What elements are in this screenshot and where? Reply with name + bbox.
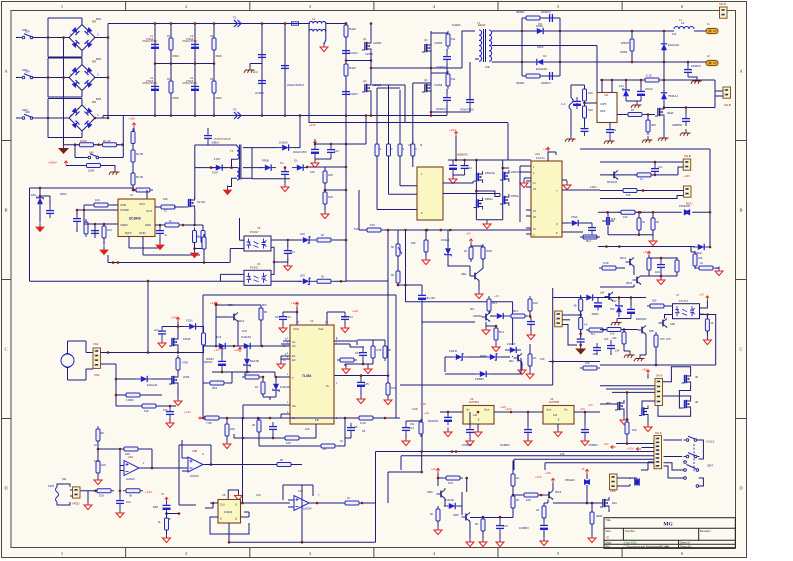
svg-text:BR3: BR3 (96, 97, 102, 101)
svg-text:LM324: LM324 (126, 477, 135, 481)
svg-text:2N60: 2N60 (183, 375, 190, 379)
svg-text:2aP: 2aP (600, 292, 605, 295)
svg-text:U10: U10 (535, 152, 540, 156)
svg-text:R11: R11 (538, 22, 543, 26)
svg-text:2K: 2K (516, 498, 520, 502)
svg-text:Vref: Vref (318, 327, 324, 331)
svg-text:C3: C3 (190, 34, 194, 38)
svg-text:4K: 4K (695, 400, 699, 404)
svg-text:U7: U7 (676, 293, 680, 297)
svg-text:750A: 750A (571, 215, 578, 219)
svg-text:680K: 680K (173, 96, 180, 100)
svg-text:SN-B: SN-B (719, 2, 726, 6)
svg-text:2200KV: 2200KV (541, 81, 551, 85)
svg-text:C: C (4, 347, 7, 352)
svg-text:1N4148: 1N4148 (241, 335, 251, 339)
svg-text:103: 103 (503, 524, 508, 528)
svg-text:8K: 8K (388, 348, 392, 352)
svg-text:750KAJ: 750KAJ (668, 94, 678, 98)
svg-text:L2: L2 (312, 17, 316, 21)
svg-text:56.0K: 56.0K (136, 175, 143, 179)
svg-text:10K: 10K (540, 357, 545, 361)
svg-text:R2: R2 (167, 77, 171, 81)
svg-text:104B0V: 104B0V (500, 443, 510, 447)
svg-text:U5: U5 (257, 226, 261, 230)
svg-text:+12V: +12V (352, 309, 358, 313)
svg-text:1K: 1K (321, 275, 325, 279)
svg-text:LM324: LM324 (303, 507, 312, 511)
svg-text:H8D: H8D (427, 490, 433, 494)
svg-text:10K: 10K (328, 173, 333, 177)
svg-text:+24V: +24V (171, 316, 178, 320)
svg-text:5K: 5K (475, 522, 479, 526)
svg-text:104B0V: 104B0V (462, 443, 472, 447)
svg-text:CN2: CN2 (94, 373, 100, 377)
svg-text:P6KE400: P6KE400 (679, 204, 691, 208)
svg-text:16K: 16K (286, 441, 291, 445)
svg-text:VCC: VCC (293, 327, 300, 331)
svg-text:560: 560 (610, 307, 615, 311)
svg-text:P6KE40: P6KE40 (565, 478, 575, 482)
svg-text:562: 562 (700, 312, 705, 316)
svg-text:Q: Q (235, 504, 237, 507)
svg-text:10K: 10K (533, 301, 538, 305)
svg-text:100uF/25V: 100uF/25V (293, 150, 307, 154)
svg-text:+24V: +24V (309, 123, 316, 127)
svg-text:+24: +24 (431, 467, 436, 471)
svg-text:Number: Number (625, 529, 635, 533)
svg-text:D2: D2 (543, 54, 547, 58)
svg-text:T: T (292, 376, 294, 380)
svg-text:560: 560 (652, 299, 657, 303)
svg-text:C21: C21 (286, 315, 291, 319)
svg-text:1: 1 (61, 4, 63, 9)
svg-text:2N4KV: 2N4KV (349, 92, 358, 96)
svg-text:+16: +16 (424, 411, 429, 415)
svg-text:File:: File: (606, 545, 611, 549)
svg-text:TL494: TL494 (302, 374, 311, 378)
svg-text:1BRO0a: 1BRO0a (485, 171, 496, 175)
svg-text:VREF: VREF (120, 223, 128, 227)
svg-text:2K: 2K (247, 370, 251, 374)
svg-text:+1V: +1V (494, 294, 499, 298)
svg-text:FR107: FR107 (507, 342, 516, 346)
svg-text:+12V: +12V (535, 475, 542, 479)
svg-text:A: A (202, 452, 204, 456)
svg-text:1K: 1K (533, 356, 537, 360)
svg-text:K1764: K1764 (197, 200, 206, 204)
svg-text:H8D50: H8D50 (473, 314, 482, 318)
svg-text:5K: 5K (280, 458, 284, 462)
svg-text:FR4aB: FR4aB (441, 238, 449, 242)
svg-text:F12N: F12N (186, 319, 192, 323)
svg-text:51K: 51K (632, 428, 637, 432)
svg-text:SW: SW (89, 151, 94, 155)
svg-text:10K: 10K (585, 361, 590, 365)
svg-text:1N: 1N (280, 161, 283, 165)
svg-text:1N4148: 1N4148 (280, 385, 290, 389)
svg-text:5.1K: 5.1K (646, 74, 652, 78)
svg-text:680K: 680K (216, 96, 223, 100)
svg-text:SW3: SW3 (22, 108, 28, 112)
svg-text:5K: 5K (391, 245, 394, 249)
svg-text:1K5: 1K5 (666, 337, 671, 341)
svg-text:9014: 9014 (228, 303, 234, 307)
svg-text:1K: 1K (321, 233, 325, 237)
svg-text:1N&AD: 1N&AD (279, 141, 288, 145)
svg-text:10K: 10K (94, 459, 99, 463)
svg-text:2L: 2L (158, 520, 162, 524)
svg-text:470K: 470K (182, 361, 188, 365)
svg-text:105: 105 (364, 382, 369, 386)
svg-text:LM: LM (473, 413, 478, 417)
svg-text:510: 510 (610, 332, 615, 336)
svg-text:1K: 1K (255, 385, 259, 389)
svg-text:+310: +310 (129, 116, 136, 120)
svg-text:Sheet of: Sheet of (680, 541, 690, 545)
svg-text:FR0B: FR0B (262, 159, 269, 163)
svg-text:10K: 10K (588, 91, 593, 95)
svg-text:U2: U2 (310, 319, 314, 323)
svg-text:SW1: SW1 (22, 28, 28, 32)
svg-text:B: B (4, 208, 7, 213)
svg-text:220uF/450V3: 220uF/450V3 (287, 83, 304, 87)
svg-text:SW2: SW2 (22, 68, 28, 72)
svg-text:666B70K: 666B70K (457, 153, 468, 157)
svg-text:ENGA40: ENGA40 (536, 67, 547, 71)
svg-text:U6: U6 (257, 262, 261, 266)
svg-text:C2656: C2656 (373, 41, 382, 45)
svg-text:2K: 2K (430, 512, 434, 516)
svg-text:C2656: C2656 (434, 41, 443, 45)
svg-text:CN2: CN2 (93, 342, 99, 346)
svg-text:104B0V: 104B0V (519, 526, 529, 530)
svg-text:4-Jan-2021: 4-Jan-2021 (624, 541, 638, 545)
svg-text:104: 104 (334, 149, 339, 153)
svg-text:10K: 10K (310, 170, 315, 174)
svg-text:MCR100: MCR100 (607, 180, 618, 184)
svg-text:5.6K: 5.6K (603, 261, 609, 265)
svg-text:104: 104 (275, 315, 280, 319)
svg-text:B4D6WV: B4D6WV (636, 317, 647, 321)
svg-text:2N1KV: 2N1KV (349, 51, 358, 55)
svg-text:+12V: +12V (291, 301, 298, 305)
svg-text:9014: 9014 (626, 281, 633, 285)
svg-text:Vin: Vin (466, 408, 470, 412)
svg-text:104: 104 (348, 315, 353, 319)
svg-text:51K: 51K (391, 386, 396, 390)
svg-text:MG: MG (663, 522, 673, 528)
svg-text:20: 20 (536, 508, 540, 512)
svg-text:R4: R4 (210, 77, 214, 81)
svg-text:C: C (739, 347, 742, 352)
svg-text:10n: 10n (658, 165, 663, 169)
svg-text:2G5KV: 2G5KV (255, 91, 264, 95)
svg-text:ENGA40: ENGA40 (147, 383, 158, 387)
svg-text:Q4: Q4 (424, 78, 428, 82)
svg-text:1K: 1K (631, 108, 635, 112)
svg-text:4.5K: 4.5K (412, 407, 418, 411)
svg-text:3900D: 3900D (516, 10, 524, 14)
svg-text:470B0V: 470B0V (588, 443, 598, 447)
svg-text:+16V: +16V (420, 402, 426, 406)
svg-text:26K: 26K (411, 241, 416, 245)
svg-text:2R2: 2R2 (212, 386, 218, 390)
svg-text:46K: 46K (698, 256, 703, 260)
svg-text:5K1: 5K1 (499, 330, 504, 334)
svg-text:sch: sch (665, 545, 670, 549)
svg-text:0V: 0V (161, 492, 165, 496)
svg-text:80B: 80B (649, 329, 654, 333)
svg-text:1N4: 1N4 (242, 329, 247, 333)
svg-text:1N&D0: 1N&D0 (452, 23, 461, 27)
svg-text:OUT: OUT (146, 209, 153, 213)
svg-text:20a: 20a (612, 501, 617, 505)
svg-text:5K: 5K (129, 494, 133, 498)
svg-text:1K: 1K (516, 476, 520, 480)
svg-text:680K: 680K (216, 54, 223, 58)
svg-text:6 10 21: 6 10 21 (536, 156, 545, 160)
svg-text:1R20: 1R20 (80, 139, 87, 143)
svg-text:680K: 680K (173, 54, 180, 58)
svg-text:Vout: Vout (484, 408, 489, 412)
svg-text:SN-B: SN-B (724, 103, 731, 107)
svg-text:5NaP: 5NaP (349, 66, 356, 70)
svg-text:+340V: +340V (48, 161, 57, 165)
svg-text:D: D (220, 518, 222, 521)
svg-text:1B: 1B (362, 429, 365, 433)
svg-text:R1-20: R1-20 (103, 139, 111, 143)
svg-text:1K: 1K (101, 431, 105, 435)
svg-text:2K: 2K (464, 249, 467, 253)
svg-text:1K: 1K (323, 447, 327, 451)
svg-text:1K: 1K (700, 261, 703, 265)
svg-text:CN5: CN5 (610, 489, 616, 493)
svg-text:+5V: +5V (604, 442, 609, 446)
svg-text:B4A4B: B4A4B (250, 359, 259, 363)
svg-text:GND: GND (139, 231, 147, 235)
svg-text:10K: 10K (101, 463, 106, 467)
svg-text:104: 104 (672, 32, 677, 36)
svg-text:Title: Title (606, 518, 612, 522)
svg-text:240: 240 (612, 336, 617, 340)
svg-text:2K: 2K (252, 423, 256, 427)
svg-text:1K: 1K (347, 496, 351, 500)
svg-text:U9A: U9A (128, 455, 133, 459)
svg-text:5.2K: 5.2K (360, 421, 366, 425)
svg-text:+5V: +5V (588, 403, 593, 407)
svg-text:UC3843: UC3843 (129, 217, 141, 221)
svg-text:9013: 9013 (555, 490, 562, 494)
svg-text:+1V: +1V (699, 293, 704, 297)
svg-text:Vout: Vout (546, 408, 551, 412)
svg-text:+1.6V: +1.6V (184, 410, 191, 414)
svg-text:CLK: CLK (256, 493, 261, 497)
svg-text:C4: C4 (190, 76, 194, 80)
svg-text:66D3V: 66D3V (206, 357, 214, 361)
svg-text:U4: U4 (550, 397, 554, 401)
svg-text:SW3: SW3 (48, 484, 55, 488)
svg-text:R1: R1 (167, 34, 171, 38)
svg-text:U9C: U9C (298, 489, 303, 493)
svg-text:9014: 9014 (620, 256, 627, 260)
svg-text:1N4148: 1N4148 (444, 498, 454, 502)
svg-text:CLK: CLK (220, 504, 225, 507)
svg-text:C1: C1 (150, 34, 154, 38)
svg-text:C4013: C4013 (224, 510, 233, 514)
svg-text:5K1: 5K1 (492, 301, 497, 305)
svg-text:R60A: R60A (60, 192, 67, 196)
svg-text:10K: 10K (560, 452, 565, 456)
svg-text:4.5K: 4.5K (376, 348, 382, 352)
svg-text:103: 103 (163, 408, 168, 412)
svg-text:F1N7: F1N7 (212, 171, 219, 175)
svg-text:F1N7: F1N7 (214, 157, 221, 161)
svg-text:Revision: Revision (700, 529, 711, 533)
svg-text:+12V: +12V (627, 446, 634, 450)
svg-text:1B50a: 1B50a (485, 197, 493, 201)
svg-text:901: 901 (509, 359, 514, 363)
svg-text:1:A: 1:A (561, 102, 565, 106)
svg-text:1B5: 1B5 (153, 505, 158, 509)
svg-text:PC817: PC817 (250, 266, 259, 270)
svg-text:JD.19V: JD.19V (426, 296, 435, 300)
svg-text:Vin: Vin (564, 408, 568, 412)
svg-text:1N4: 1N4 (216, 335, 222, 339)
svg-text:KJIL2: KJIL2 (707, 440, 715, 444)
svg-text:5NaP: 5NaP (349, 27, 356, 31)
svg-text:FR4.B: FR4.B (449, 349, 457, 353)
svg-text:+5V: +5V (580, 407, 585, 411)
svg-text:12V: 12V (619, 84, 624, 88)
svg-text:100: 100 (623, 215, 628, 219)
svg-text:IN+: IN+ (292, 404, 297, 408)
svg-text:C2656: C2656 (434, 83, 443, 87)
svg-text:470nF/630: 470nF/630 (460, 108, 474, 112)
svg-text:104: 104 (615, 349, 620, 353)
svg-text:2: 2 (185, 4, 187, 9)
svg-text:200K: 200K (486, 249, 492, 253)
svg-text:5K1: 5K1 (586, 239, 591, 243)
svg-text:51K: 51K (626, 193, 631, 197)
svg-text:51K: 51K (370, 223, 375, 227)
svg-text:C2: C2 (150, 76, 154, 80)
svg-text:1B: 1B (354, 425, 358, 429)
svg-text:460K: 460K (596, 514, 603, 518)
svg-text:103: 103 (355, 351, 360, 355)
svg-text:2n2: 2n2 (253, 70, 258, 74)
svg-text:PC817: PC817 (250, 230, 259, 234)
svg-text:SN-B: SN-B (684, 154, 691, 158)
svg-text:+24V: +24V (545, 471, 551, 475)
svg-text:E2: E2 (292, 358, 296, 362)
svg-text:W5D5: W5D5 (620, 50, 628, 54)
svg-text:U3: U3 (470, 397, 474, 401)
svg-text:RjCT: RjCT (125, 231, 132, 235)
svg-text:8K0: 8K0 (262, 303, 267, 307)
svg-text:7.8K: 7.8K (206, 421, 212, 425)
svg-text:R3: R3 (210, 34, 214, 38)
svg-text:K2645: K2645 (183, 337, 191, 341)
svg-text:5L1: 5L1 (591, 333, 596, 336)
svg-text:24V: 24V (300, 232, 305, 236)
svg-text:18A: 18A (31, 193, 36, 197)
svg-text:14D1: 14D1 (590, 185, 597, 189)
svg-text:51K: 51K (588, 108, 593, 112)
svg-text:6K: 6K (391, 273, 394, 277)
svg-text:LM324: LM324 (190, 474, 199, 478)
svg-text:103: 103 (604, 337, 609, 341)
svg-text:2X16V: 2X16V (645, 87, 653, 91)
svg-text:Q3: Q3 (424, 38, 428, 42)
svg-text:DDS: DDS (600, 109, 606, 113)
svg-text:10K: 10K (448, 481, 453, 485)
svg-text:60B1A: 60B1A (212, 141, 220, 145)
svg-text:511: 511 (451, 77, 456, 81)
svg-text:56.0K: 56.0K (136, 152, 143, 156)
svg-text:5K1: 5K1 (470, 307, 475, 311)
svg-text:D+: D+ (326, 384, 330, 388)
svg-text:ENGA40: ENGA40 (668, 43, 679, 47)
svg-text:SN-8: SN-8 (655, 431, 662, 435)
svg-text:SEN: SEN (145, 223, 151, 227)
svg-text:+1V: +1V (643, 250, 648, 254)
svg-text:B: B (739, 208, 742, 213)
svg-text:2200KV: 2200KV (691, 64, 701, 68)
svg-text:U8: U8 (222, 493, 226, 497)
svg-text:COMP: COMP (120, 208, 129, 212)
svg-text:17kB0: 17kB0 (126, 398, 134, 402)
svg-text:F2: F2 (233, 108, 237, 112)
svg-text:51K: 51K (354, 227, 359, 231)
svg-text:2K: 2K (168, 517, 171, 521)
svg-text:10K: 10K (107, 228, 112, 232)
svg-text:U11: U11 (604, 93, 609, 97)
svg-text:18A: 18A (163, 197, 168, 201)
svg-text:4B: 4B (574, 305, 577, 308)
svg-text:10K: 10K (328, 195, 333, 199)
svg-text:10K: 10K (230, 427, 235, 431)
svg-text:D92A: D92A (537, 45, 544, 49)
svg-text:+5V: +5V (466, 232, 471, 236)
svg-text:6n8: 6n8 (611, 217, 616, 221)
svg-text:FB: FB (315, 418, 319, 422)
svg-text:8K: 8K (264, 310, 268, 314)
svg-text:Q1: Q1 (363, 37, 367, 41)
svg-text:2200KV: 2200KV (436, 107, 446, 111)
svg-text:511: 511 (451, 37, 456, 41)
svg-text:F1: F1 (233, 16, 237, 20)
svg-text:4K: 4K (695, 375, 699, 379)
svg-text:+24V: +24V (684, 174, 691, 178)
svg-text:W5D5: W5D5 (621, 41, 629, 45)
svg-text:BR2: BR2 (96, 57, 102, 61)
svg-text:104: 104 (126, 500, 131, 504)
svg-text:H8D: H8D (461, 272, 466, 276)
svg-text:104: 104 (409, 426, 414, 430)
svg-text:LM: LM (553, 413, 558, 417)
svg-text:104: 104 (290, 250, 295, 254)
svg-text:VCC: VCC (139, 202, 146, 206)
svg-text:+24V: +24V (449, 128, 456, 132)
svg-text:4B3: 4B3 (593, 353, 598, 356)
svg-text:Date:: Date: (606, 541, 612, 545)
svg-text:9014: 9014 (238, 319, 245, 323)
svg-text:46K: 46K (651, 123, 656, 127)
svg-text:1K: 1K (340, 439, 343, 443)
svg-text:VR2D: VR2D (72, 502, 79, 506)
svg-text:104: 104 (467, 166, 472, 170)
